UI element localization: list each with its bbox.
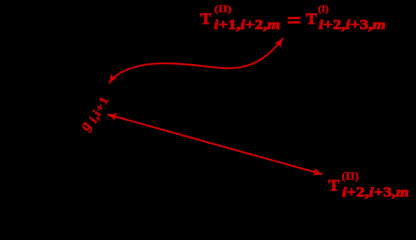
node g_{i,i+1} (rotated label) [76,91,112,135]
svg-text:i+1,i+2,m: i+1,i+2,m [214,17,281,32]
svg-text:T: T [328,176,339,195]
svg-text:T: T [200,9,211,28]
svg-text:i+2,i+3,m: i+2,i+3,m [319,17,386,32]
svg-text:i+2,i+3,m: i+2,i+3,m [342,185,409,200]
svg-text:(II): (II) [214,4,232,14]
svg-text:(II): (II) [342,172,359,183]
wire: straight double-headed arrow between g label and bottom-right T [108,114,323,174]
svg-text:T: T [306,9,317,28]
svg-text:(I): (I) [318,4,329,14]
node T(II)_{i+2,i+3,m} (bottom right) [328,172,409,200]
svg-text:i,i+1: i,i+1 [86,94,112,125]
node T(II)_{i+1,i+2,m} = T(I)_{i+2,i+3,m} (top equation) [200,4,386,32]
wire: curved double-headed arrow between g label and top equation [109,38,283,83]
